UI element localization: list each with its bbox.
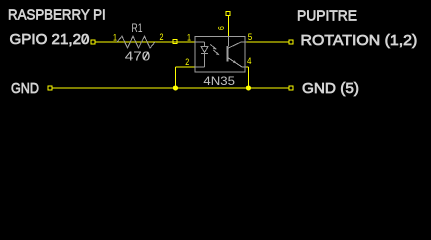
svg-text:6: 6 <box>216 26 226 30</box>
svg-text:GPIO 21,20: GPIO 21,20 <box>10 31 90 48</box>
svg-text:GND (5): GND (5) <box>302 80 359 97</box>
svg-text:5: 5 <box>248 32 253 43</box>
svg-text:PUPITRE: PUPITRE <box>297 8 357 25</box>
svg-text:ROTATION (1,2): ROTATION (1,2) <box>301 32 418 48</box>
svg-text:GND: GND <box>11 79 39 96</box>
svg-text:RASPBERRY PI: RASPBERRY PI <box>8 7 106 24</box>
svg-text:1: 1 <box>113 33 117 43</box>
svg-text:4N35: 4N35 <box>203 74 235 87</box>
svg-text:R1: R1 <box>132 23 143 36</box>
svg-text:2: 2 <box>185 57 189 67</box>
svg-text:470: 470 <box>125 50 151 65</box>
svg-text:2: 2 <box>160 32 164 42</box>
svg-text:4: 4 <box>247 56 252 67</box>
svg-text:1: 1 <box>187 33 191 43</box>
